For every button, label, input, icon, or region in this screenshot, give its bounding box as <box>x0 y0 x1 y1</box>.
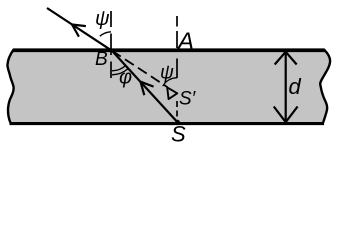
svg-text:d: d <box>289 74 302 99</box>
arrowhead on refracted ray <box>72 25 86 37</box>
svg-text:A: A <box>176 28 194 55</box>
svg-text:ψ: ψ <box>160 63 174 84</box>
hollow arrowhead at S' <box>167 87 177 99</box>
psi angle arc at B (above surface) <box>100 32 111 36</box>
svg-text:ψ: ψ <box>95 8 110 30</box>
refracted ray above surface <box>47 8 112 51</box>
svg-text:S′: S′ <box>179 89 197 110</box>
incident ray S to B <box>112 51 178 123</box>
top surface line (reinforce) <box>12 49 325 52</box>
svg-text:S: S <box>171 122 186 147</box>
virtual ray B to S' (dashed backward extension) <box>112 51 168 87</box>
svg-text:φ: φ <box>119 67 132 89</box>
svg-text:B: B <box>95 49 108 70</box>
source point S dot <box>175 120 180 125</box>
phi angle double arc at B (below surface) <box>112 66 126 71</box>
psi angle arc at S' <box>163 78 177 86</box>
thickness arrow d (double-headed) <box>285 53 287 122</box>
normal at B (dashed vertical) <box>110 11 112 27</box>
glass slab <box>7 50 330 124</box>
vertical construction line A S' S (dashed) <box>176 16 178 27</box>
arrowhead on incident ray <box>141 82 154 96</box>
bottom surface line (reinforce) <box>10 123 325 126</box>
